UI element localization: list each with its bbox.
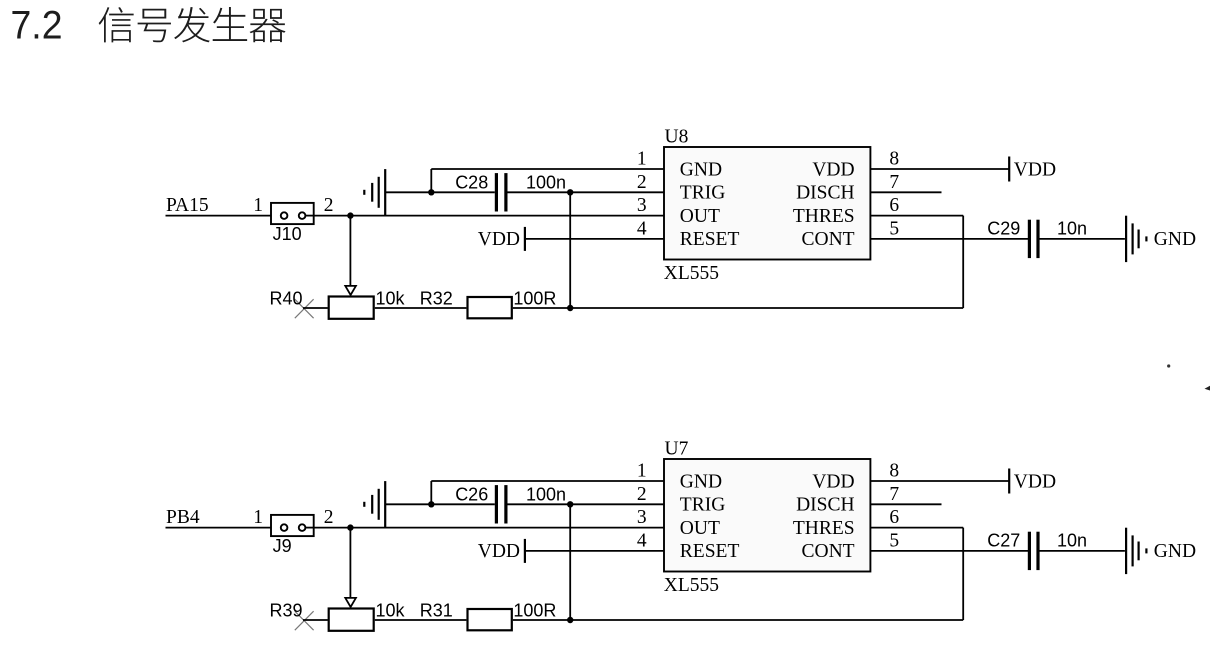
op-amp timer IC U7 XL555 body: [664, 459, 870, 572]
svg-text:6: 6: [889, 507, 899, 528]
wire U8 pin 5 CONT to C29: [870, 238, 1028, 240]
wire C26 to U7 pin 2 TRIG: [508, 503, 665, 505]
no-connect cross at R40 left terminal: [295, 299, 314, 318]
wire ground to C28: [385, 191, 495, 193]
capacitor C26: [496, 485, 506, 523]
wire PB4 to J9 pin 1: [166, 527, 281, 529]
svg-text:1: 1: [637, 149, 647, 170]
junction GND net: [428, 501, 434, 507]
wire GND net up: [430, 169, 432, 192]
wiper arrow of R39: [345, 598, 356, 607]
svg-text:TRIG: TRIG: [680, 183, 726, 204]
wire U7 pin 6 THRES to bottom rail: [870, 527, 963, 529]
wiper arrow of R40: [345, 286, 356, 295]
op-amp timer IC U8 XL555 body: [664, 147, 870, 260]
svg-text:10n: 10n: [1057, 530, 1087, 550]
svg-text:RESET: RESET: [680, 541, 740, 562]
capacitor C28: [496, 173, 506, 211]
svg-text:10k: 10k: [376, 289, 406, 309]
svg-text:2: 2: [637, 172, 647, 193]
svg-text:GND: GND: [1154, 229, 1196, 250]
potentiometer R40 body: [329, 297, 374, 319]
svg-text:VDD: VDD: [812, 159, 854, 180]
svg-text:U7: U7: [665, 439, 689, 460]
svg-text:XL555: XL555: [664, 575, 719, 596]
wire stub at R39 left terminal: [303, 619, 328, 621]
svg-text:100n: 100n: [526, 485, 566, 505]
svg-text:R31: R31: [420, 601, 453, 621]
svg-text:U8: U8: [665, 127, 689, 148]
svg-text:RESET: RESET: [680, 229, 740, 250]
svg-text:1: 1: [253, 195, 263, 216]
svg-text:OUT: OUT: [680, 518, 720, 539]
svg-text:10k: 10k: [376, 601, 406, 621]
svg-text:C26: C26: [455, 485, 488, 505]
svg-text:1: 1: [253, 507, 263, 528]
svg-text:GND: GND: [1154, 541, 1196, 562]
svg-text:5: 5: [889, 531, 899, 552]
wire OUT net down to R40 wiper: [349, 216, 351, 286]
junction on OUT net: [347, 212, 353, 218]
junction on TRIG net: [567, 189, 573, 195]
ground symbol right: [1126, 216, 1146, 262]
ground symbol left: [364, 169, 385, 215]
no-connect cross at R39 left terminal: [295, 611, 314, 630]
ground symbol right: [1126, 528, 1146, 574]
svg-text:VDD: VDD: [1014, 159, 1056, 180]
svg-text:7: 7: [889, 172, 899, 193]
svg-text:GND: GND: [680, 471, 722, 492]
resistor R31 body: [468, 609, 512, 630]
svg-text:6: 6: [889, 195, 899, 216]
jumper J9: [271, 515, 314, 536]
wire C28 to U8 pin 2 TRIG: [508, 191, 665, 193]
wire C29 to ground: [1039, 238, 1125, 240]
junction on OUT net: [347, 524, 353, 530]
wire J9 pin 2 to U7 pin 3 OUT: [314, 527, 664, 529]
svg-text:100R: 100R: [513, 601, 556, 621]
power symbol VDD at pin 8: [1008, 157, 1010, 182]
svg-text:R39: R39: [270, 601, 303, 621]
svg-text:R32: R32: [420, 289, 453, 309]
svg-text:8: 8: [889, 461, 899, 482]
wire U7 pin 8 to VDD: [870, 480, 1009, 482]
svg-text:7.2: 7.2: [11, 4, 63, 48]
junction on TRIG net: [567, 501, 573, 507]
svg-text:PB4: PB4: [166, 507, 200, 528]
svg-text:DISCH: DISCH: [796, 495, 855, 516]
svg-text:VDD: VDD: [812, 471, 854, 492]
svg-text:3: 3: [637, 195, 647, 216]
svg-text:C27: C27: [987, 530, 1020, 550]
svg-text:3: 3: [637, 507, 647, 528]
svg-text:OUT: OUT: [680, 206, 720, 227]
svg-text:5: 5: [889, 219, 899, 240]
jumper J10: [271, 203, 314, 224]
svg-text:C29: C29: [987, 218, 1020, 238]
wire U8 pin 7 DISCH stub: [870, 191, 941, 193]
svg-text:C28: C28: [455, 173, 488, 193]
svg-text:VDD: VDD: [1014, 471, 1056, 492]
svg-text:J10: J10: [273, 224, 302, 244]
wire bottom rail R32 to THRES drop: [513, 307, 963, 309]
svg-text:THRES: THRES: [793, 206, 855, 227]
wire TRIG net down to bottom rail: [569, 504, 571, 620]
svg-text:CONT: CONT: [802, 229, 855, 250]
svg-text:1: 1: [637, 461, 647, 482]
svg-text:PA15: PA15: [166, 195, 209, 216]
wire bottom rail R31 to THRES drop: [513, 619, 963, 621]
svg-text:2: 2: [637, 484, 647, 505]
wire U7 pin 7 DISCH stub: [870, 503, 941, 505]
junction bottom rail: [567, 305, 573, 311]
resistor R32 body: [468, 297, 512, 318]
svg-text:4: 4: [637, 531, 647, 552]
svg-text:VDD: VDD: [478, 541, 520, 562]
wire J10 pin 2 to U8 pin 3 OUT: [314, 215, 664, 217]
svg-text:2: 2: [324, 507, 334, 528]
wire U8 pin 6 THRES to bottom rail: [870, 215, 963, 217]
svg-text:7: 7: [889, 484, 899, 505]
wire PA15 to J10 pin 1: [166, 215, 281, 217]
wire R39 to R31: [375, 619, 467, 621]
svg-text:4: 4: [637, 219, 647, 240]
svg-text:THRES: THRES: [793, 518, 855, 539]
wire OUT net down to R39 wiper: [349, 528, 351, 598]
wire TRIG net down to bottom rail: [569, 192, 571, 308]
svg-text:8: 8: [889, 149, 899, 170]
section heading Chinese title: [99, 7, 134, 42]
stray speck 1: [1167, 364, 1170, 367]
wire ground to C26: [385, 503, 495, 505]
svg-text:DISCH: DISCH: [796, 183, 855, 204]
wire U7 pin 5 CONT to C27: [870, 550, 1028, 552]
wire stub at R40 left terminal: [303, 307, 328, 309]
svg-text:100n: 100n: [526, 173, 566, 193]
svg-text:R40: R40: [270, 289, 303, 309]
svg-text:VDD: VDD: [478, 229, 520, 250]
wire GND net to U7 pin 1: [431, 480, 664, 482]
svg-text:CONT: CONT: [802, 541, 855, 562]
svg-text:XL555: XL555: [664, 263, 719, 284]
svg-text:TRIG: TRIG: [680, 495, 726, 516]
svg-text:100R: 100R: [513, 289, 556, 309]
power symbol VDD at pin 8: [1008, 469, 1010, 494]
junction bottom rail: [567, 617, 573, 623]
ground symbol left: [364, 481, 385, 527]
svg-text:GND: GND: [680, 159, 722, 180]
svg-text:10n: 10n: [1057, 218, 1087, 238]
wire U8 pin 8 to VDD: [870, 168, 1009, 170]
wire VDD to U8 pin 4 RESET: [525, 238, 664, 240]
capacitor C29: [1029, 220, 1038, 258]
stray speck 2: [1205, 386, 1210, 391]
wire GND net to U8 pin 1: [431, 168, 664, 170]
wire C27 to ground: [1039, 550, 1125, 552]
wire GND net up: [430, 481, 432, 504]
svg-text:2: 2: [324, 195, 334, 216]
wire R40 to R32: [375, 307, 467, 309]
junction GND net: [428, 189, 434, 195]
wire VDD to U7 pin 4 RESET: [525, 550, 664, 552]
capacitor C27: [1029, 532, 1038, 570]
potentiometer R39 body: [329, 609, 374, 631]
svg-text:J9: J9: [273, 536, 292, 556]
